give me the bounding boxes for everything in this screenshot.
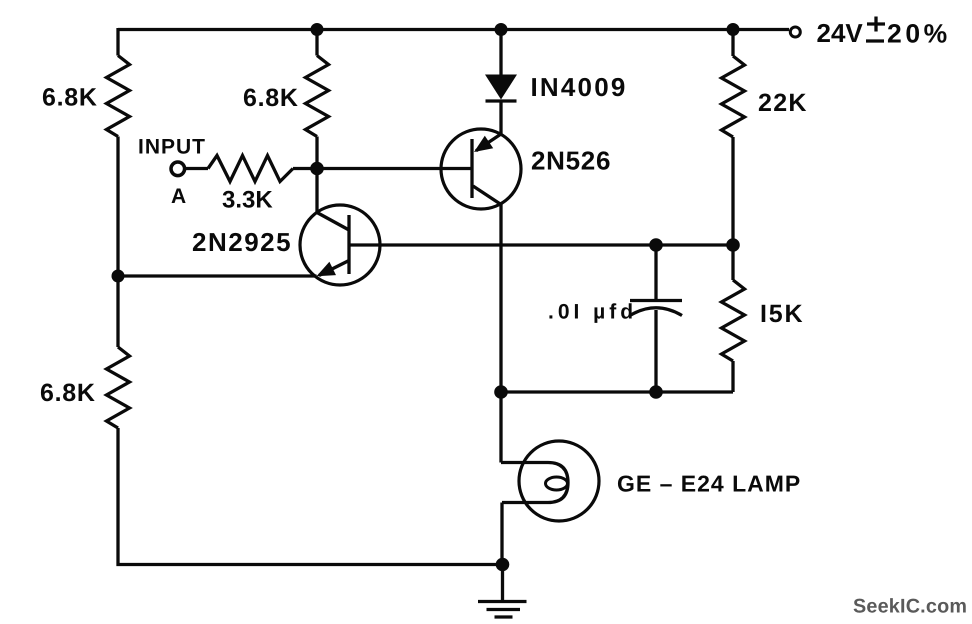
lamp DS1 GE-E24 body	[519, 441, 599, 521]
transistor Q1 2N2925 body	[300, 205, 380, 285]
wire input node to Q2 base	[317, 167, 471, 170]
svg-text:.0I µfd: .0I µfd	[548, 301, 637, 324]
lamp DS1 filament	[501, 463, 568, 503]
svg-text:INPUT: INPUT	[138, 136, 206, 159]
lamp DS1 filament loop	[546, 477, 568, 490]
transistor Q1 collector lead	[317, 213, 349, 231]
diode D1 1N4009	[485, 75, 517, 100]
capacitor C1 top plate	[630, 299, 682, 302]
node capacitor bottom	[649, 385, 663, 399]
transistor Q1 emitter arrow	[317, 262, 337, 277]
wire lamp bottom lead	[500, 503, 503, 565]
transistor Q2 collector lead	[473, 186, 501, 205]
svg-text:I5K: I5K	[760, 300, 804, 328]
svg-text:GE – E24 LAMP: GE – E24 LAMP	[617, 471, 801, 497]
resistor R6 15K	[722, 280, 745, 361]
transistor Q2 emitter arrow	[474, 136, 493, 152]
resistor R4 3.3K horizontal	[208, 156, 293, 182]
capacitor C1 bottom lead	[654, 310, 657, 392]
transistor Q1 base bar	[347, 215, 350, 274]
wire Q1 emitter to left node	[118, 274, 317, 277]
wire input terminal to R4	[186, 167, 208, 170]
svg-text:6.8K: 6.8K	[243, 84, 299, 112]
node input junction	[310, 162, 324, 176]
svg-text:6.8K: 6.8K	[40, 379, 96, 407]
transistor Q1 emitter lead	[319, 261, 349, 276]
node top of R2	[311, 23, 324, 36]
wire 22K top	[731, 30, 734, 57]
svg-text:2N2925: 2N2925	[192, 227, 292, 257]
node lamp branch junction	[494, 385, 508, 399]
wire 15K top	[731, 245, 734, 280]
node ground junction	[496, 558, 510, 572]
svg-text:6.8K: 6.8K	[42, 84, 98, 112]
svg-text:2N526: 2N526	[531, 146, 611, 176]
node capacitor top	[649, 238, 663, 252]
wire Q2 collector drop	[499, 205, 502, 393]
wire R4 to input node	[293, 167, 317, 170]
capacitor C1 top lead	[654, 245, 657, 300]
wire lower horizontal collector to RC	[501, 390, 733, 393]
wire diode cathode to Q2 emitter	[499, 103, 502, 135]
resistor R1 6.8K upper left	[107, 56, 130, 137]
capacitor C1 curved plate	[630, 308, 682, 316]
node top of 22K	[727, 23, 740, 36]
wire input node down to Q1 collector	[315, 169, 318, 213]
wire left branch top	[116, 28, 119, 56]
ground	[478, 565, 527, 618]
wire top supply rail	[118, 28, 789, 31]
transistor Q2 base bar	[470, 139, 473, 198]
wire 22K bottom	[731, 137, 734, 245]
wire left branch middle	[116, 137, 119, 348]
resistor R5 22K	[722, 56, 745, 137]
svg-text:IN4009: IN4009	[531, 72, 628, 102]
wire left branch bottom and ground rail	[118, 428, 503, 565]
resistor R2 6.8K upper middle	[306, 56, 329, 137]
transistor Q2 2N526 body	[441, 129, 521, 209]
node Q1 emitter junction	[112, 270, 125, 283]
wire 15K bottom	[731, 361, 734, 392]
wire R2 bottom to input node	[315, 137, 318, 169]
transistor Q2 emitter lead	[476, 134, 501, 151]
diode D1 cathode bar	[486, 99, 517, 102]
wire R2 top	[315, 30, 318, 56]
plus-minus sign	[866, 17, 885, 42]
wire diode anode	[499, 30, 502, 76]
terminal input A	[171, 162, 185, 176]
node top of diode branch	[495, 23, 508, 36]
svg-text:A: A	[171, 185, 186, 208]
svg-text:24V: 24V	[817, 18, 864, 48]
resistor R3 6.8K lower left	[107, 347, 130, 428]
node 22K 15K junction	[726, 238, 740, 252]
terminal 24V supply	[790, 27, 800, 37]
svg-text:3.3K: 3.3K	[222, 187, 273, 214]
wire Q1 base to RC junction	[349, 243, 733, 246]
svg-text:20%: 20%	[887, 19, 951, 49]
svg-text:SeekIC.com: SeekIC.com	[853, 596, 967, 618]
wire lamp top lead	[499, 392, 502, 463]
svg-text:22K: 22K	[758, 89, 808, 117]
